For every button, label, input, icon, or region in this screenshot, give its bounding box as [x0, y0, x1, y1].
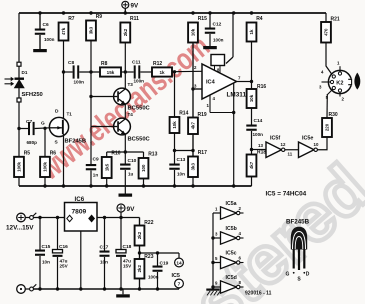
svg-text:10k: 10k	[191, 28, 196, 36]
svg-text:C8: C8	[68, 60, 74, 66]
svg-text:3k3: 3k3	[89, 26, 94, 34]
svg-text:C11: C11	[132, 60, 141, 66]
svg-text:IC5: IC5	[172, 273, 180, 279]
svg-text:R8: R8	[101, 61, 108, 67]
svg-text:R19: R19	[198, 112, 207, 118]
svg-text:3k3: 3k3	[191, 163, 196, 171]
svg-text:100k: 100k	[43, 161, 48, 171]
svg-text:R6: R6	[50, 150, 57, 156]
svg-text:R5: R5	[24, 150, 31, 156]
svg-text:IC4: IC4	[206, 80, 216, 86]
svg-text:C9: C9	[93, 157, 99, 163]
svg-text:15V: 15V	[123, 264, 132, 269]
svg-text:SFH250: SFH250	[22, 92, 43, 98]
svg-text:1k5: 1k5	[104, 163, 109, 171]
svg-text:IC5c: IC5c	[226, 250, 237, 256]
svg-text:10k: 10k	[249, 94, 254, 102]
svg-text:2k2: 2k2	[123, 28, 128, 36]
svg-text:100k: 100k	[17, 161, 22, 171]
svg-text:C17: C17	[100, 245, 109, 251]
svg-text:10n: 10n	[100, 260, 108, 265]
svg-text:C10: C10	[128, 158, 137, 164]
svg-text:100n: 100n	[44, 37, 55, 42]
svg-text:9V: 9V	[131, 3, 139, 10]
svg-text:920016 - 11: 920016 - 11	[245, 291, 272, 297]
svg-text:R4: R4	[256, 16, 263, 22]
svg-text:10k: 10k	[172, 121, 177, 129]
svg-text:IC5d: IC5d	[226, 275, 237, 281]
svg-text:100n: 100n	[253, 132, 264, 137]
svg-text:C19: C19	[160, 261, 169, 267]
svg-text:D: D	[306, 272, 310, 278]
svg-text:R30: R30	[329, 112, 338, 118]
svg-text:13: 13	[258, 143, 263, 148]
svg-text:R21: R21	[331, 17, 340, 23]
svg-text:14: 14	[176, 261, 182, 267]
svg-text:1k: 1k	[249, 29, 254, 34]
svg-text:R12: R12	[153, 61, 162, 67]
svg-text:R13: R13	[148, 152, 157, 158]
svg-text:4k7: 4k7	[249, 161, 254, 169]
svg-text:C12: C12	[213, 22, 222, 28]
svg-text:100n: 100n	[74, 80, 85, 85]
svg-text:R11: R11	[130, 16, 139, 22]
svg-text:C13: C13	[177, 157, 186, 163]
svg-text:100n: 100n	[134, 79, 145, 84]
svg-text:10n: 10n	[177, 172, 185, 177]
svg-text:2k2: 2k2	[137, 265, 142, 273]
svg-text:BF245B: BF245B	[65, 139, 87, 145]
svg-text:C6: C6	[43, 22, 49, 28]
svg-text:K2: K2	[336, 80, 343, 86]
svg-text:BF245B: BF245B	[286, 219, 310, 226]
svg-text:IC6: IC6	[75, 196, 85, 203]
svg-text:C16: C16	[59, 244, 68, 250]
svg-text:BC550C: BC550C	[128, 106, 151, 112]
svg-text:IC5a: IC5a	[226, 201, 237, 207]
svg-text:IC5b: IC5b	[226, 226, 237, 232]
svg-text:100: 100	[141, 164, 146, 172]
svg-text:IC5e: IC5e	[302, 136, 313, 142]
svg-text:C7: C7	[26, 119, 32, 125]
svg-text:R15: R15	[198, 16, 207, 22]
svg-text:11: 11	[288, 152, 293, 157]
svg-text:T4: T4	[128, 112, 134, 117]
svg-text:R10: R10	[111, 151, 120, 157]
svg-text:R17: R17	[198, 150, 207, 156]
svg-text:12V...15V: 12V...15V	[6, 225, 34, 232]
svg-text:470: 470	[324, 28, 329, 36]
svg-text:T1: T1	[67, 112, 73, 117]
svg-text:G: G	[41, 121, 45, 127]
svg-text:100n: 100n	[148, 275, 159, 280]
svg-text:R9: R9	[96, 14, 103, 20]
svg-text:15k: 15k	[107, 70, 115, 75]
svg-text:2k2: 2k2	[137, 231, 142, 239]
svg-text:R14: R14	[179, 111, 188, 117]
svg-text:220: 220	[325, 123, 330, 131]
svg-text:680p: 680p	[27, 140, 38, 145]
svg-text:12: 12	[281, 142, 286, 147]
svg-text:IC5f: IC5f	[270, 136, 280, 142]
svg-text:IC5 = 74HC04: IC5 = 74HC04	[266, 191, 307, 198]
svg-text:1n: 1n	[93, 173, 99, 178]
svg-text:R23: R23	[144, 254, 153, 260]
svg-text:R22: R22	[144, 220, 153, 226]
svg-text:7809: 7809	[72, 209, 87, 216]
svg-text:R7: R7	[68, 16, 75, 22]
svg-text:D: D	[55, 109, 59, 115]
svg-text:T3: T3	[128, 82, 134, 87]
svg-text:100n: 100n	[213, 38, 224, 43]
svg-text:4k7: 4k7	[191, 122, 196, 130]
svg-text:LM311: LM311	[227, 92, 247, 99]
svg-text:BC550C: BC550C	[128, 137, 151, 143]
svg-text:R16: R16	[257, 84, 266, 90]
svg-text:C18: C18	[123, 244, 132, 250]
svg-text:D1: D1	[22, 70, 28, 75]
svg-text:1k: 1k	[159, 70, 165, 75]
svg-text:10: 10	[314, 142, 319, 147]
svg-text:C15: C15	[42, 244, 51, 250]
svg-text:R18: R18	[257, 150, 266, 156]
svg-text:10n: 10n	[42, 260, 50, 265]
svg-text:G: G	[286, 272, 290, 278]
svg-text:9V: 9V	[127, 206, 136, 213]
svg-text:47k: 47k	[61, 27, 66, 35]
svg-text:1u: 1u	[128, 172, 134, 177]
svg-text:C14: C14	[254, 118, 263, 124]
svg-text:25V: 25V	[60, 264, 69, 269]
svg-text:7: 7	[178, 282, 181, 288]
